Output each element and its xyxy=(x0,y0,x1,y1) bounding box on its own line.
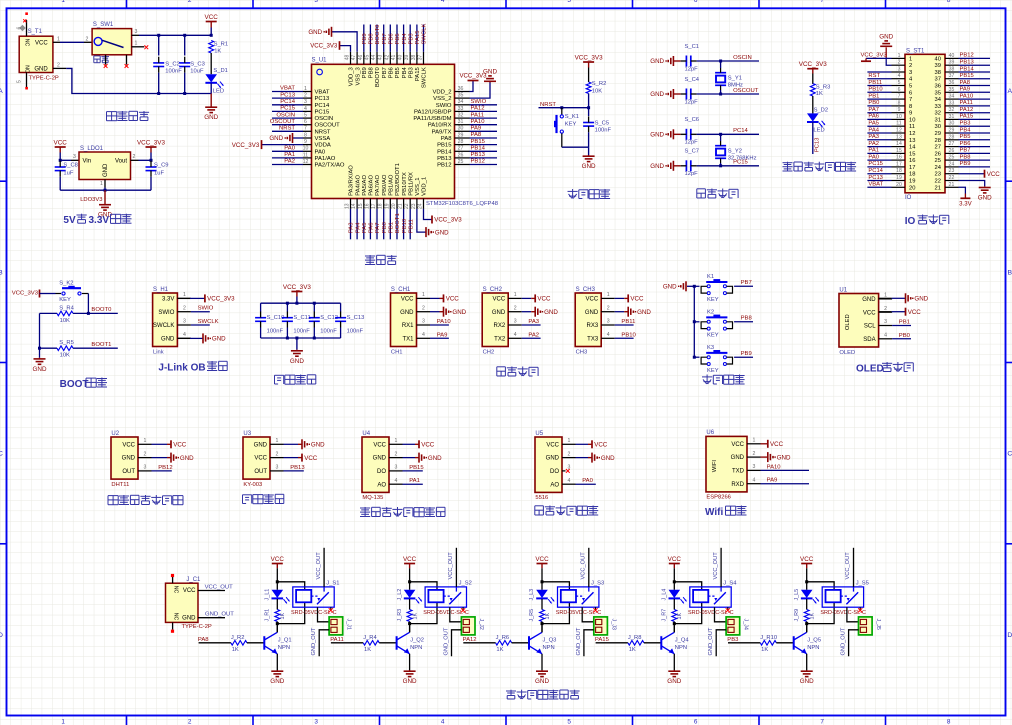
svg-text:8: 8 xyxy=(947,719,951,725)
svg-text:J_R6: J_R6 xyxy=(496,635,510,641)
svg-text:VCC_3V3: VCC_3V3 xyxy=(232,142,260,149)
connector S_H1 J-Link xyxy=(153,293,178,347)
ground symbol boot xyxy=(39,358,41,359)
svg-text:PA15: PA15 xyxy=(415,30,421,45)
net label PB7 and wire xyxy=(734,285,753,287)
U1 bottom pin 20 PB2/BOOT1 xyxy=(396,199,398,209)
svg-text:42: 42 xyxy=(384,55,390,61)
svg-text:GND_OUT: GND_OUT xyxy=(576,627,582,655)
svg-text:1: 1 xyxy=(607,292,610,298)
title wen-shi-du (temperature/humidity) module xyxy=(108,495,118,497)
svg-text:PA15: PA15 xyxy=(415,66,421,81)
svg-text:PC15: PC15 xyxy=(280,106,295,112)
svg-text:PA10: PA10 xyxy=(767,464,782,470)
svg-text:VCC_3V3: VCC_3V3 xyxy=(207,296,235,303)
svg-text:OLED: OLED xyxy=(839,350,855,356)
svg-text:J_L3: J_L3 xyxy=(529,589,535,601)
svg-text:GND_OUT: GND_OUT xyxy=(205,612,234,618)
svg-text:1: 1 xyxy=(100,181,103,187)
junction xyxy=(276,580,279,583)
svg-text:21: 21 xyxy=(935,185,941,191)
svg-text:20: 20 xyxy=(909,185,915,191)
svg-text:PC15: PC15 xyxy=(315,109,330,115)
svg-text:S_C4: S_C4 xyxy=(685,77,700,83)
svg-text:VCC: VCC xyxy=(546,442,559,448)
svg-text:VCC: VCC xyxy=(586,297,599,303)
svg-text:GND_OUT: GND_OUT xyxy=(841,627,847,655)
svg-text:2: 2 xyxy=(514,305,517,311)
wire connector to GND_OUT xyxy=(584,630,594,656)
wire emitter to ground xyxy=(541,654,543,670)
wire filter top rail xyxy=(261,302,341,304)
svg-text:5: 5 xyxy=(304,113,307,119)
switch SW1 xyxy=(92,29,132,55)
svg-text:2: 2 xyxy=(607,305,610,311)
svg-text:26: 26 xyxy=(458,152,464,158)
svg-text:VCC_3V3: VCC_3V3 xyxy=(12,291,39,297)
key button S_K2 KEY xyxy=(62,292,65,295)
svg-text:4: 4 xyxy=(183,332,186,338)
svg-text:Vout: Vout xyxy=(115,159,127,165)
U1 bottom pin 16 PA6/AO xyxy=(369,199,371,209)
resistor J_R10 1K base xyxy=(760,641,776,646)
capacitor S_C6 12pF xyxy=(685,129,687,140)
svg-text:S_SW1: S_SW1 xyxy=(93,22,114,28)
svg-text:2: 2 xyxy=(753,451,756,457)
svg-text:16: 16 xyxy=(364,203,370,209)
wire relay common to VCC_OUT xyxy=(455,548,457,587)
svg-text:PB14: PB14 xyxy=(471,146,486,152)
svg-text:S_C10: S_C10 xyxy=(267,315,285,321)
junction xyxy=(295,302,298,305)
svg-text:5V: 5V xyxy=(63,215,76,226)
wire VCC to LED/coil xyxy=(541,568,543,590)
svg-text:PA3/RX/AO: PA3/RX/AO xyxy=(349,165,355,196)
svg-text:8MHz: 8MHz xyxy=(728,83,743,89)
svg-text:VCC: VCC xyxy=(668,556,682,563)
svg-text:GND: GND xyxy=(269,135,283,142)
wire branch to relay coil xyxy=(277,582,304,590)
U1 pin1 indicator circle xyxy=(317,69,323,75)
wire relay coil return xyxy=(807,602,834,623)
svg-text:PB1: PB1 xyxy=(389,222,395,233)
transistor J_Q3 NPN xyxy=(528,636,530,650)
svg-text:PB5: PB5 xyxy=(395,33,401,45)
LED J_L3 xyxy=(536,590,548,598)
ST1 right pin 35 xyxy=(945,91,959,93)
svg-text:PA0: PA0 xyxy=(582,478,593,484)
svg-text:3: 3 xyxy=(898,67,901,73)
svg-text:RX1: RX1 xyxy=(402,323,414,329)
svg-text:GND: GND xyxy=(161,336,175,342)
svg-text:30: 30 xyxy=(935,124,941,130)
svg-text:10: 10 xyxy=(896,114,902,120)
svg-text:VCC: VCC xyxy=(183,588,196,594)
ST1 right pin 22 xyxy=(945,180,959,182)
svg-text:S_CH2: S_CH2 xyxy=(483,287,503,293)
ST1 left pin 8 xyxy=(892,105,906,107)
U1 right pin 32 PA11/USB/DM xyxy=(455,117,470,119)
svg-text:J_R2: J_R2 xyxy=(231,635,245,641)
svg-text:35: 35 xyxy=(949,87,955,93)
junction xyxy=(104,189,107,192)
svg-text:NPN: NPN xyxy=(675,645,687,651)
svg-text:1K: 1K xyxy=(232,647,239,653)
svg-text:NRST: NRST xyxy=(279,126,295,132)
svg-text:J_Q4: J_Q4 xyxy=(675,637,690,643)
title ji-dian-qi (relay control circuit) xyxy=(506,690,516,692)
svg-text:VCC: VCC xyxy=(35,41,48,47)
svg-text:PA6/AO: PA6/AO xyxy=(369,175,375,196)
svg-text:VCC: VCC xyxy=(271,556,285,563)
wire connector to GND_OUT xyxy=(716,630,726,656)
svg-text:S_R4: S_R4 xyxy=(59,305,74,311)
ST1 left pin 2 xyxy=(892,64,906,66)
svg-text:7: 7 xyxy=(820,719,824,725)
svg-text:2: 2 xyxy=(183,305,186,311)
svg-text:1: 1 xyxy=(514,292,517,298)
capacitor S_C1 12pF xyxy=(685,56,687,67)
svg-text:VCC_3V3: VCC_3V3 xyxy=(860,52,887,58)
svg-text:PB3: PB3 xyxy=(408,33,414,45)
power port VCC_3V3 at U1 VDD_1 pin24 xyxy=(424,209,432,220)
svg-text:9: 9 xyxy=(304,139,307,145)
wire crystal row 3 xyxy=(697,133,759,135)
svg-text:GND_OUT: GND_OUT xyxy=(311,627,317,655)
svg-text:S_C6: S_C6 xyxy=(685,117,700,123)
svg-text:12pF: 12pF xyxy=(685,171,699,177)
svg-text:J_R7: J_R7 xyxy=(662,609,668,622)
svg-text:PA6: PA6 xyxy=(868,114,879,120)
U1 top pin 41 PB5 xyxy=(396,52,398,65)
svg-text:2: 2 xyxy=(144,451,147,457)
svg-text:17: 17 xyxy=(896,161,902,167)
svg-text:1uF: 1uF xyxy=(154,170,164,176)
svg-text:K2: K2 xyxy=(707,309,714,315)
svg-text:PB9: PB9 xyxy=(362,33,368,44)
svg-text:2: 2 xyxy=(898,60,901,66)
svg-text:17: 17 xyxy=(371,203,377,209)
U1 left pin 3 PC14 xyxy=(303,104,312,106)
junction xyxy=(587,106,590,109)
U1 bottom pin 13 PA3/RX/AO xyxy=(350,199,352,209)
svg-text:PB15: PB15 xyxy=(960,73,974,79)
ground symbol reset xyxy=(588,147,590,155)
svg-text:VCC_3V3: VCC_3V3 xyxy=(137,139,165,146)
svg-text:3.3V: 3.3V xyxy=(959,200,972,207)
wire LED to PC13 xyxy=(812,122,814,154)
svg-text:PB12: PB12 xyxy=(437,163,451,169)
svg-text:S_CH1: S_CH1 xyxy=(391,287,411,293)
svg-text:24: 24 xyxy=(949,161,955,167)
svg-text:SDA: SDA xyxy=(863,337,875,343)
title cheng-xu-yun-xing-zhi-shi-deng (program run indicator) xyxy=(783,162,793,164)
ST1 pin3 wire xyxy=(867,71,891,73)
svg-text:J_L1: J_L1 xyxy=(265,589,271,601)
svg-text:PB13: PB13 xyxy=(437,156,452,162)
svg-text:PB14: PB14 xyxy=(960,66,975,72)
svg-text:100nF: 100nF xyxy=(165,68,182,74)
svg-text:J_C1: J_C1 xyxy=(186,577,201,583)
ST1 right pin 25 xyxy=(945,159,959,161)
svg-text:36: 36 xyxy=(458,86,464,92)
svg-text:GND: GND xyxy=(535,678,549,685)
U1 bottom pin 15 PA5/AO xyxy=(363,199,365,209)
svg-text:23: 23 xyxy=(411,203,417,209)
wire GND rail of power input xyxy=(66,68,211,93)
svg-text:AO: AO xyxy=(377,482,386,488)
ST1 left pin 19 xyxy=(892,180,906,182)
net label GND_OUT and wire xyxy=(198,617,225,619)
resistor J_R5 1K xyxy=(540,610,545,622)
junction xyxy=(693,356,696,359)
junction xyxy=(805,622,808,625)
svg-text:38: 38 xyxy=(935,70,941,76)
svg-text:PC13: PC13 xyxy=(280,92,295,98)
power port VCC_3V3 at ST1 pin1 xyxy=(866,57,892,59)
svg-text:12pF: 12pF xyxy=(685,99,699,105)
capacitor S_C2 100nF xyxy=(158,35,160,55)
svg-text:CH2: CH2 xyxy=(483,349,495,355)
display U1 OLED xyxy=(839,294,879,348)
svg-text:22: 22 xyxy=(949,175,955,181)
svg-text:LDO3V3: LDO3V3 xyxy=(80,197,102,203)
svg-text:27: 27 xyxy=(935,145,941,151)
svg-text:18: 18 xyxy=(378,203,384,209)
svg-text:PB6: PB6 xyxy=(389,33,395,45)
svg-text:34: 34 xyxy=(949,94,955,100)
wire to key xyxy=(40,293,56,295)
svg-text:10K: 10K xyxy=(60,353,70,359)
svg-text:PB10: PB10 xyxy=(868,87,882,93)
svg-text:SWIO: SWIO xyxy=(198,306,214,312)
svg-text:Wifi: Wifi xyxy=(705,507,723,518)
T1 pin 1 wire to switch xyxy=(53,41,60,43)
wire relay coil return xyxy=(410,602,437,623)
wire VCC to LED/coil xyxy=(806,568,808,590)
svg-text:PB13: PB13 xyxy=(471,152,486,158)
connector J_J3 terminal block xyxy=(594,617,608,635)
wire base resistor to transistor xyxy=(512,642,529,644)
svg-text:1: 1 xyxy=(898,53,901,59)
svg-text:2: 2 xyxy=(304,93,307,99)
junction xyxy=(183,34,186,37)
svg-text:GND: GND xyxy=(777,454,791,461)
U1 right pin 26 PB13 xyxy=(455,157,470,159)
svg-text:23: 23 xyxy=(949,168,955,174)
svg-text:33: 33 xyxy=(458,106,464,112)
resistor J_R3 1K xyxy=(407,610,412,622)
svg-text:PA8: PA8 xyxy=(198,637,209,643)
svg-text:S_C7: S_C7 xyxy=(685,149,700,155)
regulator S_LDO1 LDO3V3 xyxy=(79,152,131,180)
svg-text:VCC: VCC xyxy=(401,297,414,303)
svg-text:6: 6 xyxy=(694,0,698,4)
svg-text:PA12: PA12 xyxy=(463,637,477,643)
svg-text:PB12: PB12 xyxy=(960,53,974,59)
svg-text:PB6: PB6 xyxy=(389,66,395,78)
svg-text:PA2: PA2 xyxy=(284,159,295,165)
svg-text:8: 8 xyxy=(909,104,912,110)
svg-text:1: 1 xyxy=(61,0,65,4)
svg-text:PA8: PA8 xyxy=(960,80,971,86)
ST1 right pin 34 xyxy=(945,98,959,100)
junction xyxy=(541,580,544,583)
svg-text:44: 44 xyxy=(371,55,377,61)
wire base resistor to transistor xyxy=(247,642,264,644)
svg-text:15: 15 xyxy=(909,151,915,157)
svg-text:VCC: VCC xyxy=(446,296,460,303)
svg-text:PB1: PB1 xyxy=(899,320,910,326)
svg-text:7: 7 xyxy=(898,94,901,100)
svg-text:PA11: PA11 xyxy=(471,112,485,118)
svg-text:1: 1 xyxy=(395,438,398,444)
resistor S_R5 10K xyxy=(40,347,58,349)
svg-text:6: 6 xyxy=(898,87,901,93)
svg-text:VCC: VCC xyxy=(373,442,386,448)
ground symbol at U1 VSSA pin8 xyxy=(293,137,304,139)
svg-text:5: 5 xyxy=(17,80,23,83)
svg-text:VSSA: VSSA xyxy=(315,136,331,142)
wire crystal row 1 xyxy=(697,60,759,62)
svg-text:LED: LED xyxy=(213,88,224,94)
svg-text:A: A xyxy=(1008,88,1012,95)
T1 top pin xyxy=(26,20,28,36)
resistor J_R2 1K base xyxy=(231,641,247,646)
resistor J_R6 1K base xyxy=(496,641,512,646)
wire connector to GND_OUT xyxy=(452,630,462,656)
svg-text:LED: LED xyxy=(813,127,824,133)
svg-text:NPN: NPN xyxy=(807,645,819,651)
title dian-yuan-dian-lu (power circuit) xyxy=(107,111,117,113)
svg-text:1K: 1K xyxy=(280,613,286,620)
svg-text:31: 31 xyxy=(949,114,955,120)
svg-text:J_L4: J_L4 xyxy=(662,589,668,601)
svg-text:GND: GND xyxy=(879,34,893,41)
svg-text:PA11/USB/DM: PA11/USB/DM xyxy=(413,116,451,122)
svg-text:PB10: PB10 xyxy=(402,218,408,233)
svg-text:PB0/AO: PB0/AO xyxy=(382,174,388,196)
svg-text:CH3: CH3 xyxy=(576,349,588,355)
U1 bottom pin 18 PB0/AO xyxy=(383,199,385,209)
svg-text:VBAT: VBAT xyxy=(868,182,883,188)
wire branch to relay coil xyxy=(674,582,701,590)
wire relay common to VCC_OUT xyxy=(853,548,855,587)
svg-text:PA2: PA2 xyxy=(868,141,879,147)
svg-text:VCC_OUT: VCC_OUT xyxy=(713,552,719,580)
svg-text:VCC: VCC xyxy=(421,442,435,449)
svg-text:VCC_3V3: VCC_3V3 xyxy=(575,54,603,61)
svg-text:7: 7 xyxy=(909,97,912,103)
ground at ST1 pin22 xyxy=(959,181,985,187)
svg-text:4: 4 xyxy=(884,333,887,339)
U1 top pin 48 VDD_3 xyxy=(350,52,352,65)
svg-text:SWIO: SWIO xyxy=(158,310,174,316)
svg-text:PB3: PB3 xyxy=(960,121,971,127)
svg-text:PA7: PA7 xyxy=(868,107,879,113)
no-ERC mark on T1 bottom pin xyxy=(25,87,28,90)
svg-text:KEY: KEY xyxy=(707,297,719,303)
svg-text:100nF: 100nF xyxy=(347,328,364,334)
junction xyxy=(210,34,213,37)
svg-text:PA5: PA5 xyxy=(362,222,368,233)
svg-text:BOOT: BOOT xyxy=(60,379,89,390)
power port 3.3V at ST1 pin21 xyxy=(959,187,966,193)
svg-text:PA10: PA10 xyxy=(437,319,452,325)
svg-text:GND: GND xyxy=(290,358,304,365)
svg-text:24: 24 xyxy=(935,165,942,171)
capacitor S_C4 12pF xyxy=(685,89,687,100)
svg-text:VCC: VCC xyxy=(205,14,219,21)
svg-text:10uF: 10uF xyxy=(190,68,204,74)
svg-text:PA3: PA3 xyxy=(349,222,355,233)
ST1 right pin 21 xyxy=(945,186,959,188)
svg-text:PA10: PA10 xyxy=(960,93,974,99)
T1 bottom pin xyxy=(26,73,28,88)
resistor S_R2 10K xyxy=(586,82,591,94)
connector T1 TYPE-C-2P xyxy=(19,36,53,72)
U1 left pin 10 PA0 xyxy=(303,150,312,152)
junction xyxy=(805,580,808,583)
wire base resistor to transistor xyxy=(644,642,661,644)
svg-text:Link: Link xyxy=(153,349,164,355)
svg-text:J_J1: J_J1 xyxy=(346,619,352,630)
connector J_J4 terminal block xyxy=(726,617,740,635)
capacitor S_C7 12pF xyxy=(685,160,687,171)
wire key to BOOT0 row xyxy=(82,293,88,295)
svg-text:KY-003: KY-003 xyxy=(243,482,262,488)
svg-text:4: 4 xyxy=(395,478,398,484)
svg-text:3: 3 xyxy=(884,319,887,325)
svg-text:VCC: VCC xyxy=(535,556,549,563)
U1 right pin 34 SWIO xyxy=(455,104,470,106)
wire resistor to collector xyxy=(673,622,675,633)
svg-text:39: 39 xyxy=(949,60,955,66)
U1 top pin 46 PB9 xyxy=(363,52,365,65)
key button K1 KEY xyxy=(707,285,710,288)
svg-text:GND: GND xyxy=(435,229,449,236)
svg-text:12: 12 xyxy=(896,128,902,134)
relay J_S2 SRD-05VDC-SL-C xyxy=(425,587,466,607)
key button K2 KEY xyxy=(707,320,710,323)
svg-text:TXD: TXD xyxy=(732,469,745,475)
title guang-zhao (light detect) module xyxy=(534,506,536,515)
svg-text:S_C2: S_C2 xyxy=(165,61,180,67)
svg-text:PB2/BOOT1: PB2/BOOT1 xyxy=(395,163,401,196)
svg-text:PB4: PB4 xyxy=(402,66,408,78)
svg-text:S_Y2: S_Y2 xyxy=(728,149,742,155)
svg-text:PA4: PA4 xyxy=(868,127,879,133)
svg-text:VCC: VCC xyxy=(908,309,922,316)
svg-text:PA10/RX: PA10/RX xyxy=(428,123,452,129)
svg-text:7: 7 xyxy=(820,0,824,4)
U1 left pin 9 VDDA xyxy=(303,144,312,146)
svg-text:S_Y1: S_Y1 xyxy=(728,76,742,82)
LED J_L5 xyxy=(801,590,813,598)
J_C1 bottom pin xyxy=(172,622,174,629)
svg-text:J_J4: J_J4 xyxy=(743,619,749,630)
wire connector to GND_OUT xyxy=(849,630,859,656)
U1 top pin 44 BOOT0 xyxy=(376,52,378,65)
no-ERC mark on relay NC contact xyxy=(859,607,861,609)
capacitor S_C3 10uF xyxy=(184,35,186,55)
svg-text:2: 2 xyxy=(57,62,60,68)
U1 left pin 8 VSSA xyxy=(303,137,312,139)
svg-text:VCC: VCC xyxy=(537,296,551,303)
svg-text:40: 40 xyxy=(949,53,955,59)
U1 bottom pin 24 VDD_1 xyxy=(423,199,425,209)
svg-text:GND: GND xyxy=(34,67,48,73)
